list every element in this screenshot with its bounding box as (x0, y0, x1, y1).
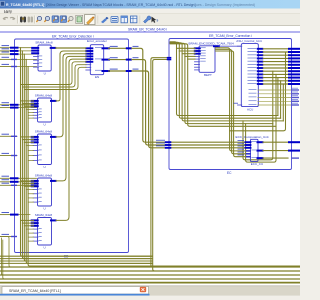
wire ACU status3 (258, 100, 291, 102)
svg-text:ACU: ACU (247, 107, 253, 111)
wire tap to U2 pin6 (28, 117, 33, 119)
wire ACU out1 (263, 51, 288, 53)
svg-text:U: U (44, 207, 46, 211)
net tick syn2 on ED edge (126, 70, 132, 72)
net tick syn0 on EC edge (165, 141, 172, 143)
wire tap to U2 pin4 (28, 111, 33, 113)
wire bus riser 1 (21, 48, 153, 257)
svg-text:R_TCAM_64x80 [RTL1]: R_TCAM_64x80 [RTL1] (6, 3, 44, 7)
output port bus 11 (288, 83, 300, 85)
output port bus 8 (288, 73, 300, 75)
pin ECC_CU out1 (257, 150, 264, 152)
output port bus 4 (288, 61, 300, 63)
wire BEPT aux out to ECC pin4 (216, 48, 245, 151)
input port cmp_en (0, 135, 11, 137)
output port bus 2 (288, 54, 300, 56)
svg-text:ER_TCAM_Error_Correction i: ER_TCAM_Error_Correction i (209, 34, 252, 38)
pin ACU out2 (257, 54, 264, 56)
wire U4 out riser to EN (56, 56, 86, 180)
pin labels BEPT internal (200, 46, 206, 49)
wire tap to U3 pin6 (28, 160, 33, 162)
wire bus riser 5 (28, 67, 300, 267)
wire ECC ring closure A (243, 121, 273, 160)
pin ACU out4 (257, 61, 264, 63)
wire U1 out to EN (56, 47, 86, 49)
svg-text:SRAM_64x8: SRAM_64x8 (35, 213, 53, 217)
input port adr_b(5:0) (0, 181, 11, 183)
output port ecc flag (291, 157, 299, 158)
pin U3 dout (50, 136, 57, 138)
input port wr_en (0, 58, 11, 60)
svg-text:Error_encoder: Error_encoder (87, 39, 107, 43)
wire ACU out4 (263, 61, 288, 63)
bottom bus left segment y=263.4 (0, 262, 152, 264)
net tick syn1 on ED edge (126, 59, 132, 61)
bottom bus left segment y=261.0 (0, 260, 152, 262)
wire BEPT pin tap 5 (188, 58, 195, 60)
wire bus riser 4 (26, 59, 152, 263)
svg-text:ER_TCAM_Error_Detection i: ER_TCAM_Error_Detection i (52, 35, 94, 39)
top-level boundary wire (0, 31, 300, 33)
pin U4 dout (50, 180, 57, 182)
input port ld (0, 155, 11, 157)
wire ACU out2 (263, 54, 288, 56)
wire BEPT aux out to ECC pin6 (216, 51, 245, 157)
pin ACU out5 (257, 64, 264, 66)
pin ACU out1 (257, 51, 264, 53)
output port bus 10 (288, 80, 300, 82)
output port bus 0 (288, 48, 300, 50)
pin ECC_CU in4 (246, 153, 251, 155)
wire BEPT feeder/riser 1 (170, 42, 278, 116)
net tick syn0 on ED edge (126, 47, 132, 49)
pin U5 dout (50, 219, 57, 221)
wire BEPT feeder/riser 5 (170, 44, 276, 127)
wire ACU out6 (263, 67, 288, 69)
svg-text:SRAM_ER_TCAM_64x40 [RTL1]: SRAM_ER_TCAM_64x40 [RTL1] (9, 289, 61, 293)
wire ACU out9 (263, 77, 288, 79)
pin ACU out11 (257, 83, 264, 85)
svg-text:U: U (44, 123, 46, 127)
pin ECC_CU out0 (257, 141, 264, 143)
wire tap to U2 pin5 (28, 114, 33, 116)
wire BEPT pin tap 4 (185, 55, 195, 57)
pin labels ECC internal (251, 140, 256, 143)
net tick syn1 on EC edge (165, 144, 172, 146)
wire BEPT feeder/riser 3 (170, 43, 283, 121)
wire BEPT pin tap 1 (177, 47, 196, 49)
wire ACU out7 (263, 70, 288, 72)
wire tap to U3 pin2 (24, 141, 33, 143)
wire BEPT to ACU (213, 45, 220, 47)
bottom bus left riser A (1, 238, 10, 275)
pin ACU out9 (257, 77, 264, 79)
wire EN pin8 west band (25, 67, 86, 89)
wire tap to U5 pin1 (22, 222, 33, 224)
wire tap to U4 pin3 (26, 189, 33, 191)
wire tap to U5 pin4 (28, 232, 33, 234)
svg-text:BRAM_ENCODED_TCAM_7904: BRAM_ENCODED_TCAM_7904 (189, 41, 234, 45)
output port bus 7 (288, 70, 300, 72)
wire EN pin6 west band (21, 62, 86, 85)
input port key(7:0) (0, 104, 11, 106)
wire ACU status2 (258, 97, 291, 99)
svg-text:U: U (44, 72, 46, 76)
wire ACU status1 (258, 93, 291, 95)
wire tap to U3 pin4 (28, 150, 33, 152)
input port addr(5:0) (0, 53, 11, 55)
wire tap to U5 pin0 (21, 219, 34, 221)
pin ACU aux left (238, 104, 242, 106)
wire tap to U5 pin5 (28, 236, 33, 238)
pin EN syn2 (102, 70, 111, 72)
pin ACU out6 (257, 67, 264, 69)
wire tap to U3 pin0 (21, 136, 34, 138)
wire ACU out11 (263, 83, 288, 85)
output port bus 6 (288, 67, 300, 69)
svg-text:BEPT: BEPT (204, 73, 212, 77)
wire tap to U4 pin1 (22, 183, 33, 185)
input port rst (0, 236, 11, 238)
svg-text:ASU_Control_Unit: ASU_Control_Unit (236, 39, 261, 43)
wire tap to U4 pin0 (21, 180, 34, 182)
wire ACU riser to ring closure A (272, 71, 274, 123)
pin ECC_CU in2 (245, 147, 252, 149)
wire tap to U5 pin2 (24, 225, 33, 227)
wire tap to U2 pin2 (24, 105, 33, 107)
pin ECC_CU out2 (257, 157, 264, 159)
input port keym(7:0) (0, 107, 11, 109)
svg-text:ues - Design Summary (Implemen: ues - Design Summary (Implemented) (196, 3, 255, 7)
wire pair to bottom bus A (151, 58, 300, 267)
wire tap to U4 pin2 (24, 185, 33, 187)
input port din_b(7:0) (0, 177, 11, 179)
wire syn0 to ED edge (109, 47, 126, 49)
pin ACU out7 (257, 70, 264, 72)
wire tap to U4 pin4 (28, 193, 33, 195)
hierarchical block ER_TCAM_Error_Correction boundary (169, 39, 292, 170)
wire ACU riser to ECC ring 2 (282, 84, 284, 121)
pin EN syn1 (102, 59, 111, 61)
pin labels ACU internal (248, 47, 257, 50)
input port clk (0, 66, 11, 68)
bottom bus left riser B (3, 240, 10, 279)
pin U2 dout (50, 100, 57, 102)
input port data_in(7:0) (0, 47, 11, 49)
svg-text:- [Xilinx Design Viewer - SRAM: - [Xilinx Design Viewer - SRAM Napa TCAM… (44, 3, 196, 7)
wire tap to U4 pin6 (28, 201, 33, 203)
wire syn2 routed to ECC_CU (132, 71, 245, 148)
wire ACU status0 (258, 89, 291, 91)
hierarchical block ER_TCAM_Error_Detection boundary (15, 39, 129, 253)
wire BEPT feeder/riser 4 (170, 43, 273, 123)
wire ACU out10 (263, 80, 288, 82)
wire syn0 routed to ECC_CU (132, 48, 245, 142)
svg-text:EN: EN (95, 75, 99, 79)
pin ECC_CU in3 (246, 150, 251, 152)
wire pair to bottom bus B (153, 60, 300, 272)
wire tap to U5 pin6 (28, 240, 33, 242)
wire syn1 routed to ECC_CU (132, 60, 245, 145)
svg-text:ECC_CU: ECC_CU (251, 162, 263, 166)
input port sel(1:0) (0, 214, 11, 216)
svg-text:U: U (44, 165, 46, 169)
bottom bus left segment y=256.2 (0, 255, 152, 257)
pin ACU out10 (257, 80, 264, 82)
svg-text:SRAM_64x8: SRAM_64x8 (35, 174, 53, 178)
wire syn1 to ED edge (109, 59, 126, 61)
wire BEPT pin tap 3 (182, 53, 195, 55)
output port bus 5 (288, 64, 300, 66)
wire ACU out8 (263, 73, 288, 75)
wire tap to U2 pin0 (21, 100, 34, 102)
wire U3 out riser to EN (56, 54, 86, 137)
wire tap to U2 pin3 (26, 109, 33, 111)
pin ACU out0 (257, 48, 264, 50)
svg-text:SRAM_64x8: SRAM_64x8 (35, 94, 53, 98)
input port mask(7:0) (0, 50, 11, 52)
bottom bus bundle (0, 266, 300, 268)
output port bus 1 (288, 51, 300, 53)
output port bus 9 (288, 77, 300, 79)
wire ECC_CU out2 (263, 157, 288, 159)
wire tap to U5 pin3 (26, 228, 33, 230)
wire U2 out riser to EN (56, 51, 86, 101)
wire ACU riser to ECC ring 1 (280, 81, 282, 118)
pin ECC_CU in1 (245, 144, 252, 146)
svg-text:U: U (44, 246, 46, 250)
svg-text:SRAM_ER_TCAM_64x40 i: SRAM_ER_TCAM_64x40 i (128, 28, 167, 32)
wire tap to U2 pin1 (22, 103, 33, 105)
pin ACU out3 (257, 57, 264, 59)
wire U5 out riser to EN (56, 59, 86, 220)
svg-text:EC: EC (227, 171, 232, 175)
pin EN syn0 (102, 47, 111, 49)
pin ECC_CU in5 (246, 156, 251, 158)
wire ACU status4 (258, 104, 291, 106)
wire BEPT pin tap 2 (179, 50, 195, 52)
wire ECC_CU out0 (263, 141, 288, 143)
wire ACU out0 (263, 48, 288, 50)
pin labels EN internal (95, 46, 102, 49)
net tick syn2 on EC edge (165, 147, 172, 149)
wire tap to U3 pin3 (26, 145, 33, 147)
wire tap to U3 pin1 (22, 139, 33, 141)
svg-text:SRAM_64x8: SRAM_64x8 (35, 130, 53, 134)
pin U1 dout (50, 47, 57, 49)
bottom bus left segment y=258.6 (0, 258, 152, 260)
output port ecc bus (288, 150, 300, 152)
pin ECC_CU in0 (245, 141, 252, 143)
wire tap to U4 pin5 (28, 197, 33, 199)
output port ecc bus (288, 141, 300, 143)
wire ACU riser to ECC ring 0 (277, 78, 279, 116)
bottom bus left riser C (0, 237, 16, 268)
output port bus 3 (288, 57, 300, 59)
wire bus riser 2 (22, 51, 152, 259)
wire bus riser 3 (24, 54, 152, 261)
pin ACU out8 (257, 73, 264, 75)
wire EN pin7 west band (23, 65, 86, 87)
wire ACU riser to ring closure B (275, 74, 277, 126)
wire ECC_CU out1 (263, 150, 288, 152)
wire ECC ring closure B (246, 124, 276, 163)
svg-text:ECC_Computation_Unit: ECC_Computation_Unit (236, 135, 269, 139)
svg-text:SRAM_64x8: SRAM_64x8 (35, 41, 53, 45)
wire ACU out1 long riser and band (230, 52, 286, 131)
wire syn2 to ED edge (109, 70, 126, 72)
wire BEPT aux out to ECC pin5 (216, 49, 245, 153)
wire BEPT feeder/riser 2 (170, 42, 280, 118)
input port en_b (0, 184, 11, 186)
wire ACU out3 (263, 57, 288, 59)
wire tap to U3 pin5 (28, 155, 33, 157)
wire ACU out5 (263, 64, 288, 66)
